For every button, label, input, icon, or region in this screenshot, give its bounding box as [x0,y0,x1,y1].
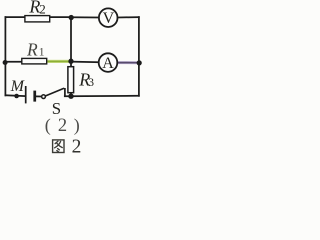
node: right rail / ammeter junction [137,60,142,65]
wire: battery to switch [36,95,41,97]
svg-text:V: V [103,10,115,27]
node: top junction [69,15,74,20]
resistor R3 (vertical) [68,67,74,93]
voltmeter V [99,8,118,27]
svg-text:(: ( [45,115,51,136]
battery M: long plate [25,86,27,103]
wire: switch contact to bottom-right corner [65,95,139,97]
node: mid junction above R3 [68,59,73,64]
battery M: short thick plate [33,91,36,102]
node: battery left terminal [14,94,19,99]
svg-text:2: 2 [58,116,67,136]
wire: bottom rail from left corner to battery [5,94,25,97]
wire: mid node into R3 top [70,61,72,66]
resistor R1 [22,58,47,64]
svg-text:): ) [74,115,80,136]
wire: right rail [138,17,140,96]
svg-text:2: 2 [72,137,82,158]
switch S: fixed contact bar [64,88,66,96]
wire: R2 to top node [50,16,71,18]
wire: mid node to ammeter [71,61,99,64]
svg-text:2: 2 [39,2,46,17]
wire: middle vertical from top node to mid node [70,17,72,61]
wire: top node to voltmeter [71,16,99,18]
wire: voltmeter to right rail [117,16,139,18]
caption (2) [45,115,80,136]
wire: R3 bottom to bottom rail [70,93,72,95]
svg-text:3: 3 [88,77,94,89]
ammeter A [99,53,118,72]
label R1 [26,39,45,59]
svg-text:1: 1 [39,47,45,59]
switch S: pivot ring [42,95,46,99]
caption: hanzi TU (figure) drawn as strokes [53,140,64,153]
node: left rail / R1 junction [3,60,8,65]
wire: top rail from left corner to R2 [5,16,24,18]
wire: left rail to R1 [5,61,21,63]
resistor R2 [25,16,50,22]
wire: green segment R1 to mid node [48,60,71,63]
svg-text:A: A [102,55,114,72]
svg-text:R: R [26,39,38,59]
wire: left rail [4,17,6,95]
label R2 [28,0,45,17]
switch S: blade [46,88,64,96]
wire: purple segment ammeter to right rail [117,61,137,64]
node: bottom junction below R3 [68,94,73,99]
label R3 [78,70,94,90]
svg-text:M: M [10,78,26,95]
